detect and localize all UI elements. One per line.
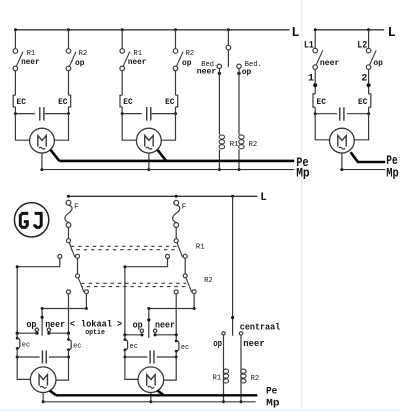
- wire: motor 1 to Mp: [41, 153, 43, 170]
- terminal dot op (unit 1): [35, 332, 38, 335]
- motor M (top-right figure): [330, 128, 355, 153]
- svg-text:R2: R2: [249, 141, 258, 149]
- node: link at common (unit 1): [41, 307, 44, 310]
- svg-text:EC: EC: [123, 97, 132, 107]
- motor M2 (top figure): [136, 128, 161, 153]
- node: coil R1 on Mp: [218, 168, 221, 171]
- relay contact R2 "op" (motor 1): [66, 49, 71, 54]
- node: bus junction Bed common: [227, 28, 230, 31]
- wire: ec to capacitor node right (unit 2): [175, 351, 177, 357]
- node: motor on Mp line (unit 2): [149, 400, 152, 403]
- svg-text:EC: EC: [165, 97, 174, 107]
- mechanical link R1 (dashed): [71, 245, 177, 247]
- node: bus junction L2: [367, 28, 370, 31]
- node: motor on Mp (top-right): [340, 168, 343, 171]
- limit switch EC (L2): [369, 94, 371, 107]
- wire: Mp line (top-right): [342, 169, 385, 171]
- node: capacitor junction (L2): [367, 112, 370, 115]
- terminal dot Bed.neer: [218, 72, 221, 75]
- wire: EC to capacitor node right (motor 2): [175, 107, 177, 114]
- wire: motor to Mp (unit 2): [150, 393, 152, 402]
- node: capacitor junction (L1): [314, 112, 317, 115]
- wire: R2 left contact to neer branch (unit 1): [68, 294, 70, 333]
- svg-text:L: L: [388, 26, 396, 41]
- node: motor 2 on Mp line: [147, 168, 150, 171]
- wire: Mp line (bottom): [43, 401, 256, 403]
- wire: Mp line (top-left figure): [42, 169, 294, 171]
- svg-text:R1: R1: [133, 50, 142, 58]
- svg-text:Pe: Pe: [266, 386, 277, 397]
- contact neer (unit 2): [153, 329, 156, 332]
- wire: L bus (top-right figure): [315, 29, 384, 31]
- wire: motor 1 to Pe (thick): [51, 150, 60, 161]
- terminal dot 1: [313, 83, 317, 87]
- svg-text:L2: L2: [357, 41, 367, 52]
- svg-text:neer: neer: [45, 320, 65, 330]
- svg-text:op: op: [213, 339, 222, 349]
- motor M1 (top figure): [30, 128, 55, 153]
- svg-text:R1: R1: [196, 243, 205, 251]
- limit switch ec left (unit 2): [124, 338, 127, 341]
- svg-text:neer: neer: [197, 67, 217, 76]
- svg-text:EC: EC: [358, 97, 367, 107]
- wire: bus to R1 contact (motor 2): [121, 30, 123, 49]
- wire: centraal op to coil R1: [223, 335, 225, 402]
- node: capacitor junction right (motor 2): [174, 112, 177, 115]
- wire: op terminal to left wire (unit 2): [125, 334, 142, 336]
- node: bus junction motor1 right: [67, 28, 70, 31]
- svg-text:neer: neer: [155, 321, 175, 331]
- node: op wire junction (unit 1): [16, 332, 19, 335]
- wire: ec to capacitor node left (unit 2): [124, 350, 126, 357]
- svg-text:Mp: Mp: [266, 398, 279, 409]
- relay changeover contact R1 (unit 1): [67, 239, 71, 243]
- svg-text:optie: optie: [85, 329, 105, 337]
- wire: R1 contact to EC (motor 1): [14, 71, 16, 96]
- limit switch ec right (unit 2): [175, 340, 178, 343]
- svg-text:op: op: [26, 320, 36, 330]
- relay contact R1 "neer" (motor 1): [13, 49, 18, 54]
- limit switch EC (L1): [313, 94, 315, 107]
- wire: centraal neer to coil R2: [240, 335, 242, 402]
- relay coil R2: [239, 135, 244, 139]
- node: pushbutton pivot (unit 1): [41, 316, 44, 319]
- capacitor C (motor 2): [142, 107, 152, 122]
- wire: switch L1 to EC: [314, 69, 316, 94]
- wire: left branch to motor (top-right): [315, 114, 329, 140]
- svg-text:Mp: Mp: [386, 166, 399, 180]
- limit switch ec left (unit 1): [16, 337, 19, 340]
- node: capacitor junction left (unit 2): [123, 356, 126, 359]
- node: coil R2 on Mp: [238, 168, 241, 171]
- wire: motor to Pe thick diagonal (unit 1): [50, 391, 56, 396]
- wire: bus to R2 contact (motor 2): [175, 30, 177, 49]
- node: bus junction L1: [314, 28, 317, 31]
- wire: R2 right contact down (unit 1): [85, 294, 87, 309]
- limit switch ec right (unit 1): [67, 338, 70, 341]
- wire: EC to capacitor node left (motor 1): [14, 107, 16, 114]
- wire: motor 2 to Pe (thick): [158, 150, 167, 161]
- relay changeover contact R2 (unit 2): [183, 274, 187, 278]
- node: centraal pivot: [231, 316, 234, 319]
- logo letter G: [20, 213, 28, 227]
- wire: right wire to ec (unit 2): [175, 335, 177, 341]
- terminal dot neer (unit 1): [47, 332, 50, 335]
- svg-text:ec: ec: [22, 341, 30, 349]
- wire: Pe line (top-right, thick): [357, 161, 385, 164]
- wire: fuse to relay contact R1 (unit 2): [175, 227, 177, 238]
- wire: capacitor horizontal (motor 1): [15, 113, 68, 115]
- svg-text:EC: EC: [17, 97, 26, 107]
- wire: Bed.neer to coil R1: [218, 69, 220, 135]
- svg-text:op: op: [75, 59, 85, 68]
- svg-text:neer: neer: [128, 58, 147, 67]
- wire: right branch to motor (motor 2): [161, 114, 175, 141]
- wire: left branch to motor (motor 2): [122, 114, 136, 141]
- node: corner junction (unit 1): [16, 265, 19, 268]
- node: centraal neer on Mp: [240, 400, 243, 403]
- node: capacitor junction left (motor 2): [121, 112, 124, 115]
- svg-text:L: L: [291, 26, 299, 41]
- svg-text:op: op: [373, 59, 383, 68]
- node: bus junction motor2 right: [174, 28, 177, 31]
- capacitor C (top-right): [337, 107, 347, 122]
- svg-text:ec: ec: [181, 344, 189, 352]
- mechanical link R2 (dashed): [81, 282, 186, 284]
- svg-text:op: op: [242, 68, 252, 77]
- wire: pushbutton common pole (unit 2): [148, 309, 150, 339]
- wire: L bus (top-left figure): [15, 29, 289, 31]
- fuse F (unit 1): [66, 200, 71, 205]
- limit switch EC left (motor 2): [120, 95, 122, 107]
- contact centraal neer: [239, 332, 242, 335]
- wire: left wire to ec (unit 1): [16, 333, 18, 338]
- contact neer (unit 1): [47, 328, 50, 331]
- terminal dot neer (unit 2): [154, 333, 157, 336]
- node: neer wire junction (unit 1): [67, 332, 70, 335]
- contact op (unit 2): [140, 329, 143, 332]
- svg-text:R1: R1: [213, 375, 222, 383]
- wire: motor to Mp (top-right): [341, 153, 343, 170]
- wire: EC to capacitor node (L1): [314, 107, 316, 114]
- wire: bus to R2 contact (motor 1): [68, 30, 70, 49]
- limit switch EC left (motor 1): [13, 95, 15, 107]
- wire: Pe line (top-left figure, thick): [59, 160, 294, 163]
- terminal dot 2: [367, 83, 371, 87]
- wire: Pe line (bottom, thick): [56, 394, 257, 396]
- node: capacitor junction left (unit 1): [16, 356, 19, 359]
- motor M (unit 1): [30, 367, 56, 393]
- capacitor C (unit 2): [147, 350, 156, 364]
- switch L1: [313, 48, 318, 53]
- limit switch EC right (motor 1): [69, 95, 71, 107]
- column divider line: [301, 0, 303, 411]
- wire: right wire to motor (unit 2): [164, 357, 177, 380]
- svg-text:centraal: centraal: [240, 323, 280, 333]
- wire: capacitor horizontal (top-right): [315, 113, 368, 115]
- contact Bed.op: [237, 64, 241, 68]
- wire: coil R2 to Mp: [238, 149, 240, 169]
- limit switch EC right (motor 2): [176, 95, 178, 107]
- node: R2 right to link (unit 2): [193, 307, 196, 310]
- node: corner junction (unit 2): [123, 265, 126, 268]
- node: motor on Mp line (unit 1): [42, 400, 45, 403]
- relay contact R2 "op" (motor 2): [173, 49, 178, 54]
- motor M (unit 2): [138, 367, 164, 393]
- svg-text:>: >: [117, 319, 122, 329]
- wire: R1 contact to EC (motor 2): [121, 71, 123, 96]
- wire: left wire to motor (unit 1): [17, 357, 30, 379]
- wire: EC to capacitor node (L2): [368, 107, 370, 114]
- svg-text:F: F: [74, 203, 79, 211]
- relay coil R1 (bottom): [223, 369, 228, 373]
- wire: ec to capacitor node left (unit 1): [16, 349, 18, 358]
- wire: op terminal to left wire (unit 1): [17, 332, 37, 334]
- relay contact R1 "neer" (motor 2): [120, 49, 125, 54]
- node: bus junction centraal: [231, 195, 234, 198]
- wire: right branch to motor (top-right): [354, 114, 368, 140]
- wire: Bed common pole: [227, 30, 229, 67]
- wire: neer terminal to right wire (unit 2): [155, 334, 176, 336]
- wire: motor to Pe thick diagonal (unit 2): [157, 391, 163, 396]
- node: capacitor junction right (motor 1): [67, 112, 70, 115]
- svg-text:L1: L1: [304, 41, 314, 52]
- capacitor C (unit 1): [40, 350, 49, 364]
- bottom window edge strip: [0, 409, 400, 411]
- wire: EC to capacitor node left (motor 2): [121, 107, 123, 114]
- wire: R2 contact to EC (motor 2): [175, 71, 177, 96]
- svg-text:L: L: [260, 192, 267, 204]
- node: bus junction fuse F1: [67, 195, 70, 198]
- pivot circle Bed common: [226, 45, 231, 50]
- node: capacitor junction right (unit 1): [67, 356, 70, 359]
- wire: ec to capacitor node right (unit 1): [68, 350, 70, 357]
- wire: motor to Mp (unit 1): [42, 393, 44, 402]
- svg-text:R1: R1: [27, 50, 36, 58]
- svg-text:<: <: [70, 319, 75, 329]
- wire: switch L2 to EC: [368, 69, 370, 94]
- node: motor 1 on Mp line: [40, 168, 43, 171]
- wire: motor to Pe thick diagonal (top-right): [351, 152, 358, 162]
- wire: bus to switch L1: [314, 30, 316, 49]
- wire: left branch to motor (motor 1): [15, 114, 29, 141]
- terminal dot Bed.op: [237, 72, 240, 75]
- wire: R1 left contact to op branch (unit 2): [125, 258, 168, 334]
- relay coil R1: [219, 135, 224, 139]
- wire: R1 right contact to R2 (unit 2): [184, 258, 186, 274]
- wire: L bus (bottom figure): [69, 195, 258, 197]
- svg-text:neer: neer: [320, 59, 340, 68]
- node: op wire junction (unit 2): [123, 333, 126, 336]
- contact centraal op: [222, 332, 225, 335]
- wire: R2 contact to EC (motor 1): [68, 71, 70, 96]
- node: capacitor junction left (motor 1): [14, 112, 17, 115]
- node: bus junction motor1 left: [14, 28, 17, 31]
- wire: R2 left contact to neer branch (unit 2): [175, 294, 177, 335]
- svg-text:op: op: [133, 321, 143, 331]
- svg-text:Mp: Mp: [296, 166, 310, 180]
- wire: neer terminal to right wire (unit 1): [49, 332, 69, 334]
- node: pushbutton pivot (unit 2): [147, 318, 150, 321]
- relay changeover contact R2 (unit 1): [76, 274, 80, 278]
- wire: R1 left contact to op branch (unit 1): [17, 258, 60, 333]
- wire: coil R1 to Mp: [218, 149, 220, 169]
- wire: link to pushbutton common (unit 2): [149, 308, 194, 310]
- switch L2: [366, 48, 371, 53]
- wire: left wire to motor (unit 2): [125, 357, 138, 379]
- terminal dot op (unit 2): [140, 333, 143, 336]
- svg-text:EC: EC: [317, 97, 326, 107]
- svg-text:1: 1: [308, 73, 314, 84]
- fuse F (unit 2): [174, 200, 179, 205]
- wire: right branch to motor (motor 1): [54, 114, 68, 141]
- logo GJ circle: [14, 203, 48, 237]
- wire: motor 2 to Mp: [148, 153, 150, 170]
- relay coil R2 (bottom): [241, 369, 246, 373]
- node: centraal op on Mp: [222, 400, 225, 403]
- wire: EC to capacitor node right (motor 1): [68, 107, 70, 114]
- node: neer wire junction (unit 2): [175, 333, 178, 336]
- wire: R1 right contact to R2 (unit 1): [77, 258, 79, 274]
- node: R2 right to link (unit 1): [85, 307, 88, 310]
- svg-text:op: op: [182, 59, 192, 68]
- capacitor C (motor 1): [35, 107, 45, 122]
- svg-text:R2: R2: [186, 50, 195, 58]
- svg-text:R2: R2: [79, 50, 88, 58]
- svg-text:R1: R1: [230, 141, 239, 149]
- svg-text:2: 2: [361, 73, 367, 84]
- node: bus junction motor2 left: [121, 28, 124, 31]
- svg-text:neer: neer: [243, 339, 264, 349]
- svg-text:R2: R2: [204, 277, 213, 285]
- svg-text:EC: EC: [58, 97, 67, 107]
- contact op (unit 1): [35, 328, 38, 331]
- svg-text:neer: neer: [21, 58, 40, 67]
- node: bus junction fuse F2: [175, 195, 178, 198]
- svg-text:F: F: [182, 203, 187, 211]
- wire: link to pushbutton common (unit 1): [42, 308, 86, 310]
- wire: Bed.op to coil R2: [238, 69, 240, 135]
- wire: R2 right contact down (unit 2): [193, 294, 195, 309]
- wire: centraal common pole: [232, 196, 234, 335]
- wire: pushbutton common pole (unit 1): [41, 309, 43, 336]
- wire: fuse to relay contact R1 (unit 1): [68, 227, 70, 238]
- wire: bus to R1 contact (motor 1): [14, 30, 16, 49]
- wire: right wire to motor (unit 1): [56, 357, 69, 380]
- wire: bus to switch L2: [368, 30, 370, 49]
- svg-text:ec: ec: [73, 343, 81, 351]
- relay changeover contact R1 (unit 2): [174, 239, 178, 243]
- wire: left wire to ec (unit 2): [124, 335, 126, 340]
- svg-text:ec: ec: [130, 343, 138, 351]
- contact Bed.neer: [217, 64, 221, 68]
- node: link at common (unit 2): [147, 307, 150, 310]
- wire: capacitor horizontal (unit 2): [125, 356, 176, 358]
- wire: capacitor horizontal (motor 2): [122, 113, 175, 115]
- svg-text:R2: R2: [251, 375, 260, 383]
- wire: right wire to ec (unit 1): [68, 333, 70, 339]
- logo letter J: [35, 213, 42, 227]
- node: capacitor junction right (unit 2): [175, 356, 178, 359]
- wire: capacitor horizontal (unit 1): [17, 356, 68, 358]
